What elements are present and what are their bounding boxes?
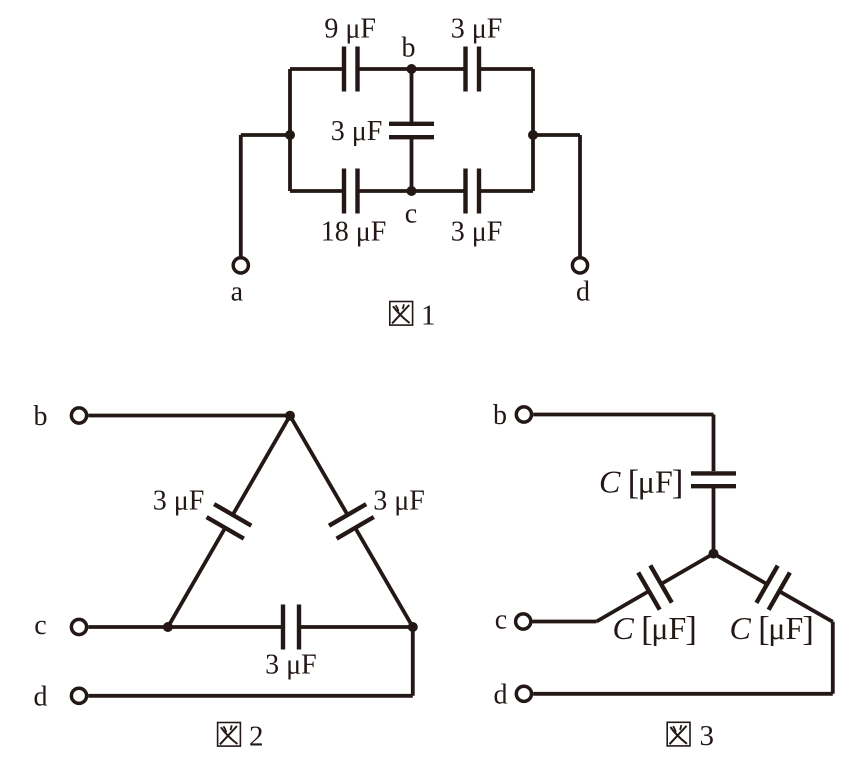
label 3uF bottom-right [451,217,503,248]
label 18uF [321,217,387,248]
wire: fig3 d row and right edge [533,622,833,694]
capacitor 18uF plates [344,169,358,214]
terminal b fig2 [71,408,86,423]
wire: terminal d stub [533,135,580,257]
terminal d fig3 [516,686,531,701]
label a [231,277,244,308]
label node c [405,199,417,230]
terminal c fig2 [71,619,86,634]
node fig2 left [163,622,173,632]
label b fig3 [493,400,507,431]
svg-text:d: d [576,277,590,308]
label 3uF fig2-bottom [265,650,317,681]
svg-text:b: b [493,400,507,431]
wire: fig2 left side [168,416,290,627]
capacitor 3uF fig2-left plates [207,504,252,538]
wire: fig2 c row [88,625,413,629]
terminal c fig3 [516,614,531,629]
label 9uF [324,14,376,45]
label 3uF fig2-right [373,486,425,517]
node c [407,186,417,196]
terminal b fig3 [516,407,531,422]
svg-text:b: b [34,401,48,432]
wire: fig1 middle branch [410,69,414,191]
svg-text:3 μF: 3 μF [331,116,383,147]
capacitor 3uF top-right plates [466,47,480,92]
capacitor C fig3-top plates [691,473,736,486]
label C uF fig3-top [599,463,683,502]
svg-text:18 μF: 18 μF [321,217,387,248]
label c fig3 [495,605,507,636]
label C uF fig3-right [730,609,814,648]
label node b [402,33,416,64]
svg-text:1: 1 [421,300,436,332]
label 3uF fig2-left [153,486,205,517]
label C uF fig3-left [613,609,697,648]
terminal d [572,258,587,273]
capacitor C fig3-right plates [756,566,790,610]
svg-text:3 μF: 3 μF [451,217,503,248]
node fig1 right junction [528,130,538,140]
terminal a [233,258,248,273]
svg-text:c: c [405,199,417,230]
label 3uF top-right [451,14,503,45]
label 3uF middle [331,116,383,147]
svg-text:c: c [495,605,507,636]
svg-text:3 μF: 3 μF [451,14,503,45]
node fig2 right [408,622,418,632]
terminal d fig2 [71,688,86,703]
capacitor 3uF fig2-bottom plates [283,605,299,650]
wire: fig3 left diagonal [597,554,714,622]
svg-text:d: d [34,682,48,713]
capacitor 9uF plates [344,47,358,92]
svg-text:]: ] [672,463,684,502]
svg-text:μF: μF [638,464,673,500]
svg-text:3: 3 [700,720,715,752]
svg-text:b: b [402,33,416,64]
wire: fig1 right rail [531,69,535,191]
capacitor 3uF middle plates [389,124,434,137]
wire: fig2 b to apex [88,414,290,418]
node fig1 left junction [285,130,295,140]
svg-text:c: c [34,610,46,641]
svg-text:C: C [613,610,635,646]
node b [407,64,417,74]
caption 図2 [218,721,264,753]
svg-text:C: C [730,610,752,646]
node fig2 apex [285,411,295,421]
wire: fig1 top segments [290,67,533,71]
wire: fig3 c row [533,620,597,624]
node fig3 star [709,549,719,559]
label d [576,277,590,308]
capacitor C fig3-left plates [638,565,672,609]
wire: fig2 right side [290,416,413,627]
svg-text:d: d [494,680,508,711]
svg-text:C: C [599,464,621,500]
capacitor 3uF bottom-right plates [466,169,480,214]
svg-text:μF: μF [768,610,803,646]
svg-text:μF: μF [651,610,686,646]
caption 図3 [667,720,714,752]
label d fig2 [34,682,48,713]
label b fig2 [34,401,48,432]
wire: fig2 d row [88,627,413,696]
label d fig3 [494,680,508,711]
wire: terminal a stub [241,135,290,257]
svg-text:]: ] [802,609,814,648]
svg-text:]: ] [685,609,697,648]
svg-text:a: a [231,277,244,308]
wire: fig1 left rail [288,69,292,191]
wire: fig1 bottom segments [290,189,533,193]
wire: fig3 cap to node [712,486,716,553]
caption 図1 [390,300,436,332]
svg-text:3 μF: 3 μF [265,650,317,681]
svg-text:3 μF: 3 μF [373,486,425,517]
svg-text:3 μF: 3 μF [153,486,205,517]
wire: fig3 b row [533,415,713,472]
label c fig2 [34,610,46,641]
svg-text:9 μF: 9 μF [324,14,376,45]
wire: fig3 right diagonal [714,554,833,622]
svg-text:2: 2 [249,721,264,753]
capacitor 3uF fig2-right plates [329,504,374,538]
